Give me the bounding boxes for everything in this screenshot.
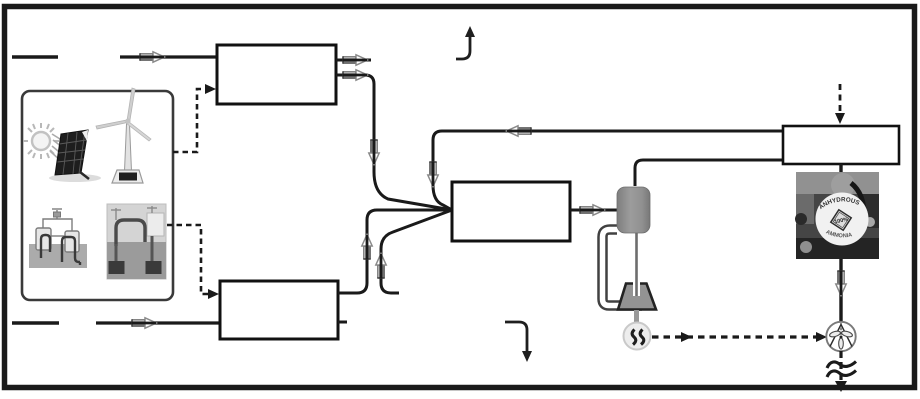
electrolyzer 1 box <box>217 45 336 104</box>
recycle wire reactor loop <box>433 131 783 210</box>
arrow into electrolyzer 1 <box>205 84 216 94</box>
arrow into control unit top <box>835 113 845 124</box>
nitrogen wire to reactor <box>381 210 452 293</box>
arrow into fan <box>816 332 827 342</box>
solar panel <box>49 130 101 182</box>
flow arrow on bottom feed <box>132 318 157 328</box>
condenser loop pipe <box>603 230 643 306</box>
fan symbol <box>826 322 855 351</box>
separator vessel <box>617 187 650 233</box>
flow arrow on top feed <box>140 52 165 62</box>
flow arrow on recycle down leg <box>428 162 438 187</box>
vent arrowhead through border <box>835 381 847 392</box>
electrolyzer photo (bottom-right) <box>107 204 166 279</box>
tank to fan wire <box>839 259 842 322</box>
dashed heat line to fan <box>652 335 818 338</box>
flow arrow on line A up <box>362 235 372 260</box>
flow arrow on h2 wire down <box>369 140 379 165</box>
funnel <box>618 284 656 310</box>
oxygen vent wire from electrolyzer 1 <box>336 59 371 62</box>
vent line below fan <box>839 351 842 384</box>
dashed line into control unit <box>839 84 842 114</box>
electrolyzer 2 box <box>220 281 338 339</box>
vent squiggle upper <box>827 362 856 369</box>
electrolyzer drawing (bottom-left) <box>29 209 87 268</box>
control unit to tank wire <box>839 164 842 172</box>
hydrogen wire electrolyzer 2 to reactor <box>338 210 452 293</box>
flow arrow on oxygen vent <box>343 55 368 65</box>
funnel outlet stem <box>634 310 639 324</box>
ammonia tank photo <box>795 172 879 259</box>
flow arrow reactor outlet <box>580 205 605 215</box>
vent squiggle lower <box>827 371 856 378</box>
water feed wire to electrolyzer 1 <box>120 55 217 58</box>
dashed control line panel to electrolyzer 2 <box>167 225 211 294</box>
water feed wire to electrolyzer 2 <box>96 321 220 324</box>
flow arrow tank to fan <box>836 271 846 296</box>
flow arrow on line B up <box>376 254 386 279</box>
arrow mid heat line <box>681 332 692 342</box>
wind turbine <box>96 88 151 183</box>
oxygen vent arrow top center <box>456 26 475 59</box>
sun rays to panel <box>50 134 68 162</box>
control unit box <box>783 126 899 164</box>
feed stub top-left <box>12 55 58 59</box>
separator drain rod <box>635 233 638 296</box>
separator top wire <box>635 160 783 186</box>
purge arrow bottom center <box>505 322 532 362</box>
reactor outlet wire <box>570 209 618 212</box>
reactor box <box>452 182 570 241</box>
renewable sources panel <box>22 91 173 300</box>
hydrogen wire electrolyzer 1 to reactor <box>336 75 452 210</box>
funnel stem halo <box>633 280 640 296</box>
feed stub bottom-left <box>12 321 59 325</box>
arrow into electrolyzer 2 <box>208 289 219 299</box>
electrolyzer 2 right stub <box>338 321 347 324</box>
steam bubble <box>624 323 651 350</box>
dashed control line panel to electrolyzer 1 <box>173 89 208 152</box>
flow arrow on h2 wire right <box>343 70 368 80</box>
flow arrow on recycle leftward <box>507 126 532 136</box>
sun <box>23 123 59 159</box>
